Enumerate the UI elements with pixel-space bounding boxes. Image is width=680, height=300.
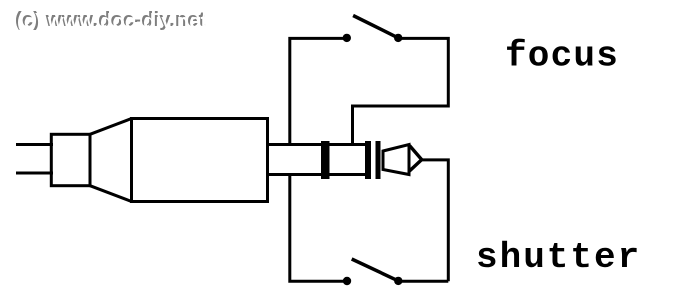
node focus switch right contact: [394, 34, 402, 42]
insulator separator 1 (sleeve/ring): [321, 141, 330, 179]
tip point triangle: [410, 146, 422, 172]
node focus switch left contact: [343, 34, 351, 42]
plug taper top slant: [90, 119, 132, 135]
wire focus switch to ring: [353, 38, 449, 144]
plug taper bottom slant: [90, 186, 132, 202]
shutter switch lever: [352, 259, 399, 281]
wire cable lead top: [16, 143, 53, 146]
shaft top edge: [266, 143, 371, 146]
node shutter switch right contact: [394, 277, 402, 285]
shaft bottom edge: [266, 173, 371, 176]
wire shutter switch to right vertical: [398, 280, 448, 283]
svg-text:shutter: shutter: [476, 237, 641, 278]
focus switch lever: [353, 16, 398, 38]
insulator separator 2 (ring/tip): [365, 141, 371, 179]
tip cone: [383, 145, 409, 175]
tip groove bar: [376, 141, 381, 179]
svg-text:focus: focus: [505, 36, 619, 77]
node shutter switch left contact: [343, 277, 351, 285]
watermark (c) www.doc-diy.net: [15, 9, 208, 33]
wire from tip to right: [422, 160, 449, 281]
plug body: [132, 119, 268, 202]
wire sleeve up to focus switch: [290, 38, 347, 143]
wire sleeve down to shutter switch: [290, 176, 347, 282]
svg-text:(c) www.doc-diy.net: (c) www.doc-diy.net: [17, 11, 208, 33]
wire cable lead bottom: [16, 172, 53, 175]
plug cable-end cap (small rectangle): [51, 134, 90, 185]
